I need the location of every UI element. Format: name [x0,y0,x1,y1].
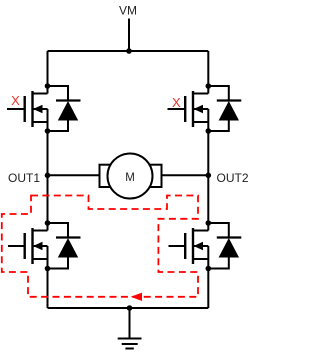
source-body vertical [207,109,209,131]
node Q3 source junction [45,266,51,272]
drain stub [33,93,48,95]
body lead [33,108,48,110]
node Q3 drain junction [45,220,51,226]
ground [118,339,142,349]
source-body vertical [207,246,209,269]
wire OUT1 to motor [48,174,100,176]
source stub [33,258,48,260]
channel bar [31,91,33,127]
cathode lead [48,86,69,101]
gate bar [184,96,186,122]
body arrow [33,105,43,114]
gate bar [24,233,26,259]
node VM junction [126,48,132,54]
svg-text:VM: VM [119,4,137,18]
svg-text:OUT2: OUT2 [217,171,249,185]
node Q2 drain junction [206,83,212,89]
source-body vertical [47,109,49,131]
wire bottom rail [48,307,209,309]
wire top rail [48,50,209,52]
gate lead [8,245,25,247]
node Q1 source junction [45,128,51,134]
cathode lead [48,223,69,238]
gate lead [168,108,186,110]
wire right rail lower [207,269,209,309]
anode lead [48,258,69,269]
diode triangle [58,238,78,258]
gate lead [7,108,25,110]
svg-text:X: X [172,95,181,110]
current path (red dashed loop) [2,196,198,297]
body lead [33,245,48,247]
node OUT1 junction [45,173,51,179]
source stub [33,121,48,123]
node OUT2 junction [206,173,212,179]
gate lead [169,245,186,247]
transistor Q3 (low-side left) [8,228,48,269]
anode lead [48,121,69,132]
cathode lead [208,223,229,238]
motor M brush terminals [100,165,113,187]
gate bar [184,233,186,259]
transistor Q1 (high-side left) [7,91,48,131]
gate bar [24,96,26,122]
wire motor to OUT2 [162,174,209,176]
wire left rail upper [47,51,49,94]
node ground junction [127,305,133,311]
drain stub [193,230,208,232]
diode D1 (body diode of Q1) [48,86,81,131]
wire left rail lower [47,269,49,309]
transistor Q2 (high-side right) [168,91,209,131]
wire ground stem [129,308,131,339]
cathode lead [208,86,229,101]
body arrow [194,242,204,251]
node Q4 drain junction [206,220,212,226]
diode D4 (body diode of Q4) [208,223,241,269]
anode lead [208,258,229,269]
channel bar [192,228,194,264]
diode D2 (body diode of Q2) [208,86,241,131]
body arrow [33,242,43,251]
source stub [193,258,208,260]
diode triangle [58,101,78,121]
cathode bar [56,99,81,101]
channel bar [31,228,33,264]
svg-text:OUT1: OUT1 [8,171,40,185]
motor M body [108,154,153,199]
cathode bar [217,99,242,101]
body lead [194,108,209,110]
cathode bar [217,236,242,238]
cathode bar [56,236,81,238]
svg-text:M: M [125,172,135,184]
drain stub [193,93,208,95]
anode lead [208,121,229,132]
body lead [194,245,209,247]
transistor Q4 (low-side right) [169,228,209,269]
node Q4 source junction [206,266,212,272]
wire VM stub [128,19,130,52]
wire left rail middle (Q1 source to OUT1 to Q3 drain) [47,131,49,231]
wire right rail upper [207,51,209,94]
diode triangle [219,101,239,121]
svg-text:X: X [11,93,20,108]
current direction arrow [131,293,142,301]
drain stub [33,230,48,232]
node Q2 source junction [206,128,212,134]
diode triangle [219,238,239,258]
source stub [193,121,208,123]
diode D3 (body diode of Q3) [48,223,81,269]
channel bar [192,91,194,127]
body arrow [194,105,204,114]
source-body vertical [47,246,49,269]
wire right rail middle (Q2 source to OUT2 to Q4 drain) [207,131,209,231]
node Q1 drain junction [45,83,51,89]
